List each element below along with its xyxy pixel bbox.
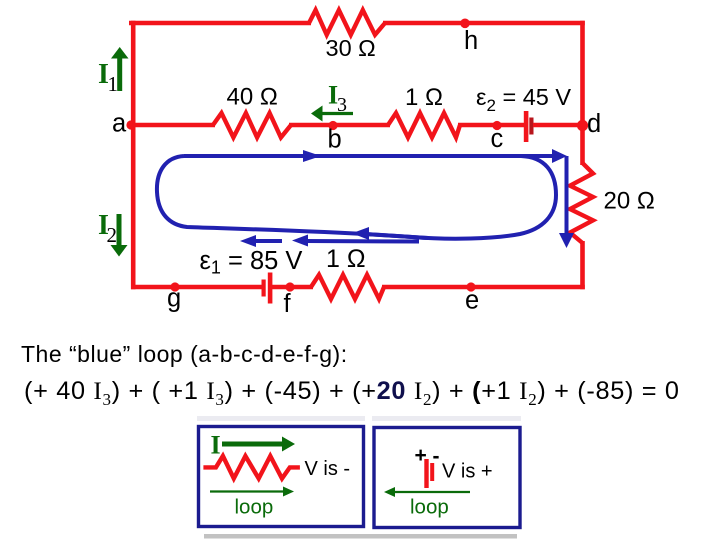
- grey strip above boxes left: [197, 416, 365, 421]
- battery E2 45V negative plate: [529, 118, 533, 135]
- svg-text:f: f: [284, 290, 292, 318]
- wire left vertical: [131, 21, 136, 290]
- wire bottom f segment: [272, 285, 313, 290]
- wire top right segment: [383, 21, 585, 26]
- blue loop arrowhead down: [559, 233, 574, 248]
- node a junction dot: [126, 120, 135, 129]
- wire bottom e segment: [382, 285, 585, 290]
- svg-text:a: a: [112, 110, 127, 138]
- grey strip below boxes: [204, 534, 517, 539]
- node g junction dot: [170, 282, 179, 291]
- legend1 loop arrow: [210, 490, 286, 492]
- legend2 battery positive plate: [424, 459, 428, 488]
- wire middle 1ohm to battery e2: [458, 123, 526, 127]
- blue KVL loop path (a-b-c-d-e-f-g): [157, 156, 556, 239]
- legend2 battery negative plate: [430, 463, 434, 481]
- current arrow I3: [321, 112, 353, 115]
- svg-text:1: 1: [108, 72, 119, 96]
- resistor 1 ohm (branch b-c): [388, 113, 460, 138]
- wire bottom g segment: [131, 285, 263, 290]
- wire top left segment: [129, 21, 311, 26]
- legend box 2: [374, 428, 520, 528]
- svg-text:2: 2: [107, 223, 118, 247]
- battery E1 85V positive plate: [268, 273, 273, 304]
- blue arrow lower 2: [304, 239, 419, 244]
- svg-text:b: b: [328, 126, 342, 154]
- svg-text:3: 3: [337, 94, 347, 116]
- svg-text:loop: loop: [410, 496, 449, 519]
- svg-text:The “blue” loop (a-b-c-d-e-f-g: The “blue” loop (a-b-c-d-e-f-g):: [21, 341, 348, 367]
- legend box 1: [199, 427, 364, 527]
- svg-text:30 Ω: 30 Ω: [326, 35, 376, 61]
- node h junction dot: [460, 19, 470, 29]
- blue loop arrowhead top right: [552, 149, 567, 163]
- svg-text:1 Ω: 1 Ω: [326, 245, 366, 273]
- node d junction dot: [577, 120, 588, 131]
- node e junction dot: [466, 282, 475, 291]
- svg-text:(+ 40 I3) + ( +1 I3) + (-45) +: (+ 40 I3) + ( +1 I3) + (-45) + (+20 I2) …: [24, 377, 680, 409]
- blue arrow lower 1: [252, 239, 282, 243]
- wire right vertical lower: [580, 241, 585, 289]
- resistor 1 ohm (branch f-e): [311, 275, 384, 299]
- legend2 loop arrow: [392, 491, 470, 493]
- svg-text:e: e: [465, 287, 479, 315]
- svg-text:h: h: [464, 27, 478, 55]
- battery E2 45V positive plate: [524, 111, 529, 142]
- wire middle 40ohm to 1ohm: [289, 123, 390, 127]
- battery E1 85V negative plate: [262, 280, 266, 297]
- node b junction dot: [328, 121, 337, 130]
- svg-text:20 Ω: 20 Ω: [604, 188, 655, 215]
- legend1 current arrow: [222, 442, 284, 447]
- wire middle a to 40ohm: [131, 123, 215, 127]
- current arrow I2: [117, 214, 122, 247]
- svg-text:V is -: V is -: [305, 458, 351, 480]
- svg-text:ε2 = 45 V: ε2 = 45 V: [476, 84, 571, 115]
- wire right vertical upper: [580, 21, 585, 165]
- svg-text:g: g: [167, 285, 181, 313]
- node c junction dot: [492, 121, 501, 130]
- legend1 resistor symbol: [203, 456, 300, 479]
- blue loop top line: [184, 154, 556, 158]
- resistor 20 ohm (right branch d-e): [570, 163, 593, 243]
- resistor 40 ohm (branch a-b): [213, 113, 291, 138]
- svg-text:d: d: [587, 110, 601, 138]
- blue loop arrowhead top middle: [303, 150, 321, 162]
- node f junction dot: [285, 282, 294, 291]
- svg-text:1 Ω: 1 Ω: [405, 84, 443, 111]
- current arrow I1: [117, 56, 122, 91]
- blue arrow lower 3: [361, 234, 428, 238]
- svg-text:V is +: V is +: [442, 461, 493, 483]
- grey strip above boxes right: [372, 416, 521, 421]
- blue loop vertical line at 20ohm: [565, 156, 569, 236]
- svg-text:loop: loop: [235, 496, 274, 519]
- svg-text:I: I: [211, 431, 221, 460]
- svg-text:40 Ω: 40 Ω: [227, 84, 278, 111]
- svg-text:ε1 = 85 V: ε1 = 85 V: [200, 247, 303, 278]
- resistor 30 ohm (top branch h): [309, 10, 385, 35]
- wire middle battery to d: [533, 123, 584, 127]
- svg-text:c: c: [491, 125, 504, 153]
